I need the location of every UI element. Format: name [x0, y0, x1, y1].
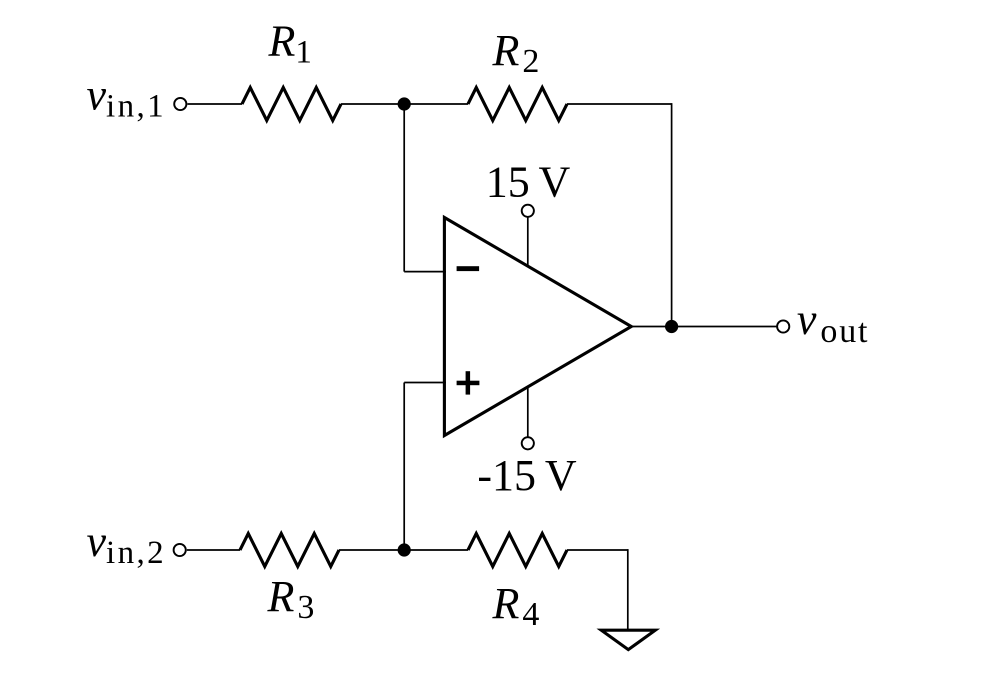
wire [567, 549, 628, 551]
resistor R4 [468, 534, 567, 567]
wire [632, 326, 778, 328]
terminal v_in,2 [174, 544, 186, 556]
wire [671, 103, 673, 326]
wire [403, 104, 405, 272]
junction node [398, 97, 411, 110]
terminal -15V [522, 437, 534, 449]
wire [187, 103, 242, 105]
wire [404, 271, 446, 273]
terminal +15V [522, 205, 534, 217]
wire [403, 383, 405, 551]
ground [601, 630, 655, 649]
wire [567, 103, 672, 105]
wire [404, 382, 446, 384]
wire [627, 549, 629, 630]
resistor R2 [468, 88, 567, 121]
op-amp inverting input marker [457, 266, 480, 271]
terminal v_in,1 [174, 98, 186, 110]
wire [339, 549, 468, 551]
wire [527, 217, 529, 266]
terminal v_out [777, 320, 789, 332]
wire [187, 549, 240, 551]
resistor R1 [242, 88, 341, 121]
junction node [398, 543, 411, 556]
wire [527, 387, 529, 437]
resistor R3 [240, 534, 339, 567]
wire [341, 103, 468, 105]
svg-text:-15 V: -15 V [477, 451, 576, 500]
op-amp U1 [444, 218, 631, 436]
op-amp non-inverting input marker [457, 371, 480, 394]
output node [665, 320, 678, 333]
svg-text:15 V: 15 V [486, 158, 571, 207]
